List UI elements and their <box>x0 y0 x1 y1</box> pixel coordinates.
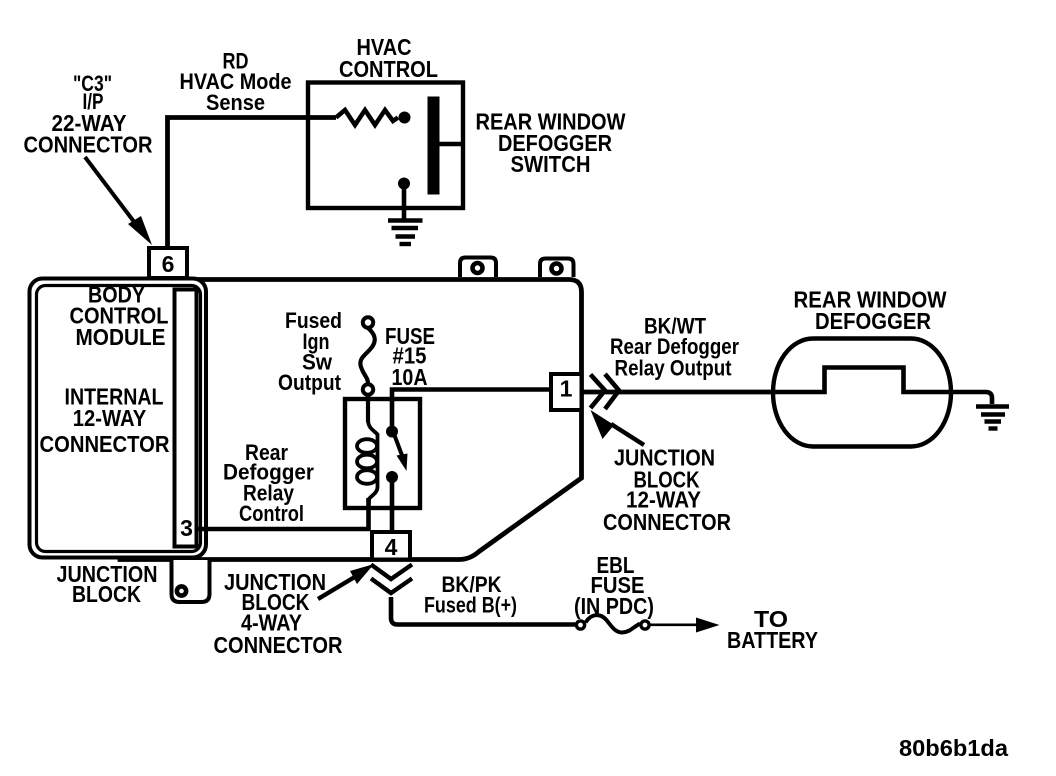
svg-text:CONNECTOR: CONNECTOR <box>40 431 170 457</box>
svg-text:3: 3 <box>180 515 193 541</box>
body control module inner case line <box>37 286 201 552</box>
connector box 1 <box>551 374 582 410</box>
connector box 4 <box>372 532 410 560</box>
svg-text:Sense: Sense <box>206 90 265 115</box>
wire: defogger to ground <box>951 392 992 404</box>
EBL fuse symbol <box>576 615 649 632</box>
HVAC control box <box>308 83 463 209</box>
wire: dot to ground <box>402 185 407 219</box>
chevron connector below 4 <box>371 565 412 594</box>
internal 12-way connector strip <box>175 290 197 547</box>
svg-text:BLOCK: BLOCK <box>72 581 141 607</box>
ground (defogger) <box>976 407 1009 429</box>
relay switch contact top <box>386 426 398 438</box>
junction block mounting tab 1 <box>460 258 496 278</box>
svg-text:SWITCH: SWITCH <box>511 151 591 177</box>
svg-text:Relay Output: Relay Output <box>615 356 733 381</box>
defogger grid step <box>773 368 951 393</box>
wire: switch top to connector 1 <box>392 390 552 432</box>
wire into resistor <box>306 115 336 120</box>
leader arrow to 4-way connector <box>318 564 374 599</box>
wire: switch to box edge <box>439 142 464 147</box>
relay switch blade <box>394 434 408 471</box>
junction block mounting tab 2 <box>540 259 574 278</box>
svg-text:Control: Control <box>239 501 304 526</box>
svg-text:10A: 10A <box>392 364 428 390</box>
svg-text:MODULE: MODULE <box>76 324 166 350</box>
junction block outline <box>120 280 582 560</box>
svg-text:Fused B(+): Fused B(+) <box>424 593 517 618</box>
contact dot upper <box>399 112 411 124</box>
wire: switch bottom to connector 4 <box>390 477 395 533</box>
svg-text:80b6b1da: 80b6b1da <box>899 735 1008 761</box>
connector box 6 <box>149 248 187 278</box>
svg-text:CONTROL: CONTROL <box>339 56 438 82</box>
svg-text:6: 6 <box>162 251 175 277</box>
relay switch contact bottom <box>386 471 398 483</box>
fuse #15 symbol <box>360 317 374 422</box>
wire: pin 3 to relay coil <box>197 498 369 529</box>
svg-text:Output: Output <box>278 370 342 395</box>
relay box: rear defogger relay <box>345 399 420 508</box>
leader arrow to connector 6 <box>85 157 152 245</box>
wire: 4 to EBL fuse <box>391 597 575 625</box>
contact dot lower <box>398 178 410 190</box>
svg-text:1: 1 <box>560 376 573 402</box>
resistor: HVAC mode sense <box>336 110 398 125</box>
svg-text:12-WAY: 12-WAY <box>73 405 147 431</box>
body control module outer case <box>30 279 207 558</box>
svg-text:CONNECTOR: CONNECTOR <box>24 132 153 158</box>
svg-text:DEFOGGER: DEFOGGER <box>815 308 931 334</box>
wire: relay output to defogger <box>583 390 775 395</box>
ground (HVAC switch) <box>388 221 423 245</box>
svg-text:CONNECTOR: CONNECTOR <box>603 509 731 535</box>
svg-text:CONNECTOR: CONNECTOR <box>214 632 343 658</box>
arrow to battery <box>650 618 720 633</box>
wire: RD HVAC mode sense (C3 to HVAC control) <box>168 118 337 251</box>
svg-text:BATTERY: BATTERY <box>727 627 818 653</box>
junction block bottom mounting tab <box>172 560 210 602</box>
svg-text:4: 4 <box>385 534 398 560</box>
svg-text:(IN PDC): (IN PDC) <box>574 593 654 619</box>
rear window defogger element (oval) <box>773 339 951 447</box>
leader arrow to 12-way connector <box>591 410 645 445</box>
chevron connector right of 1 <box>591 374 620 409</box>
relay coil <box>357 394 378 508</box>
switch slider bar <box>428 97 440 195</box>
